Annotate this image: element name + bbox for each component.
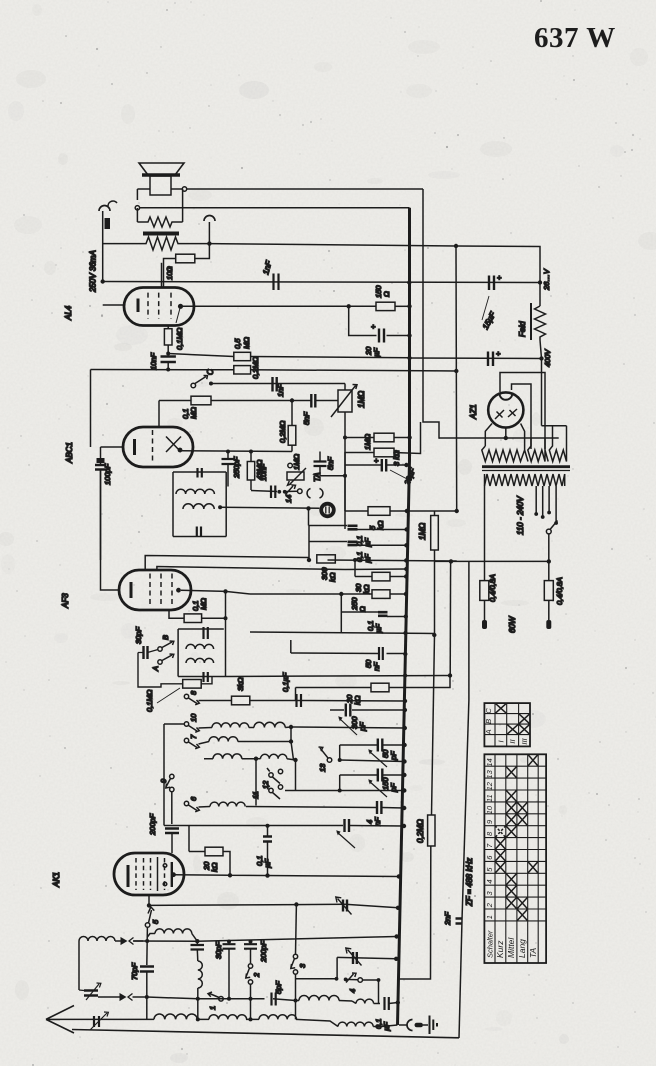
- capacitor 0,1uF: [263, 837, 272, 842]
- switch 14: [277, 490, 281, 494]
- svg-text:26…V: 26…V: [542, 268, 551, 291]
- svg-text:pF: pF: [389, 751, 398, 761]
- primary taps: [536, 486, 556, 522]
- row 710: capacitor 300pF trimmer: [330, 709, 405, 711]
- bracket coil D to switches 11/12: [256, 759, 296, 806]
- svg-text:1: 1: [485, 915, 494, 919]
- svg-text:I: I: [496, 740, 505, 742]
- resistor 0,1MOhm below AL4: [167, 326, 169, 353]
- antenna symbol: [46, 1006, 74, 1034]
- resistor 1MOhm (bus to mains row): [435, 511, 452, 561]
- primary winding 110-240V: [485, 474, 565, 486]
- row 594: resistor 250 Ohm: [250, 593, 406, 595]
- svg-text:B: B: [484, 719, 493, 724]
- corner to 2nF line: [459, 561, 469, 1038]
- node 260V: [538, 280, 542, 284]
- svg-text:0,5: 0,5: [233, 338, 242, 349]
- svg-text:10nF: 10nF: [259, 463, 268, 481]
- coil I: [154, 1014, 197, 1019]
- antenna trimmer: [84, 991, 98, 996]
- capacitor 2nF on 462 line: [456, 919, 463, 924]
- svg-text:+: +: [497, 273, 502, 282]
- tube AF3: [119, 570, 191, 610]
- svg-text:B: B: [161, 635, 170, 640]
- speaker terminal node left: [135, 206, 139, 210]
- speaker output transformer secondary loop: [137, 189, 182, 222]
- svg-text:4: 4: [485, 879, 494, 883]
- svg-text:1MΩ: 1MΩ: [363, 434, 372, 450]
- IF transformer T2: [178, 629, 225, 677]
- coil row 741: [199, 742, 210, 745]
- row 511: resistor 5kOhm: [345, 510, 457, 512]
- output transformer core bar: [143, 232, 179, 236]
- TA pickup connector: [319, 502, 335, 518]
- AK1 cathode lead bottom: [148, 895, 150, 905]
- svg-text:Ω: Ω: [382, 291, 391, 297]
- bottom rail: [60, 1019, 338, 1026]
- tube AL4: [124, 288, 194, 326]
- svg-text:4: 4: [348, 989, 357, 993]
- svg-text:13: 13: [485, 769, 494, 778]
- row 576: resistor 30kOhm: [355, 560, 406, 577]
- svg-text:MΩ: MΩ: [242, 337, 251, 349]
- svg-text:0,2MΩ: 0,2MΩ: [416, 819, 425, 843]
- capacitor 1nF on row 383.5: [273, 377, 277, 392]
- svg-text:110 - 240V: 110 - 240V: [516, 496, 525, 535]
- svg-text:250V 36mA: 250V 36mA: [89, 250, 98, 293]
- svg-text:Kurz: Kurz: [495, 940, 505, 958]
- switch 12: [269, 773, 273, 777]
- wire B+ top rail 1: [187, 188, 423, 190]
- potentiometer 1MOhm TA: [288, 463, 293, 468]
- svg-text:400V: 400V: [543, 348, 552, 367]
- row 826: trimmer to bus: [164, 825, 404, 828]
- row 632: wire crossing to 434: [250, 632, 434, 634]
- node 400V: [539, 356, 543, 360]
- svg-text:C: C: [206, 369, 215, 375]
- wire B+ rail 358: [410, 357, 542, 360]
- capacitor 30pF padder: [228, 942, 230, 944]
- switch 7: [184, 738, 188, 742]
- resistor 43MOhm: [250, 452, 252, 491]
- IF transformer T1 below ABC1: [173, 472, 226, 537]
- transformer core double bar: [482, 465, 570, 468]
- capacitor 15uF: [489, 276, 494, 291]
- antenna coil G: [79, 937, 115, 942]
- row 790: wire from switches 11/12: [285, 790, 404, 792]
- fuse 0,4/0,8A right: [548, 561, 550, 580]
- row 654: capacitor 50nF: [291, 652, 406, 655]
- svg-text:ZF = 488 kHz: ZF = 488 kHz: [465, 858, 474, 907]
- wire B+ top rail 2: [140, 207, 410, 209]
- resistor 1MOhm row 437: [345, 437, 410, 439]
- resistor 100 Ohm: [164, 244, 210, 288]
- resistor 0,1MOhm grid leak row 400.5: [159, 400, 338, 402]
- vertical wire 423 from top rail: [423, 189, 439, 439]
- switch 6: [184, 801, 188, 805]
- wire 250V feed to corner at 540: [209, 244, 540, 282]
- AF3 grid cap leads up: [145, 556, 309, 571]
- capacitor 20uF electrolytic: [349, 306, 410, 335]
- svg-text:637 W: 637 W: [534, 22, 616, 54]
- svg-text:nF: nF: [372, 662, 381, 671]
- row 728: wire coils to bus: [291, 727, 405, 728]
- T1 coil 1: [176, 489, 214, 494]
- coil F: [147, 934, 155, 938]
- svg-text:Ω: Ω: [358, 606, 367, 612]
- potentiometer 1MOhm volume: [344, 384, 346, 391]
- svg-text:A: A: [151, 666, 160, 672]
- svg-text:III: III: [520, 738, 529, 744]
- switch A: [158, 660, 162, 664]
- roentgen table ABC (Bereich): [484, 703, 530, 746]
- svg-text:200pF: 200pF: [148, 813, 157, 836]
- svg-text:11: 11: [485, 794, 494, 802]
- resistor 20kOhm: [189, 852, 230, 876]
- tube AK1: [114, 853, 184, 895]
- plug contacts row 997: [98, 996, 147, 998]
- junction right of field winding: [207, 241, 211, 245]
- switch 2: [248, 964, 252, 968]
- svg-text:ABC1: ABC1: [65, 442, 74, 464]
- voltage selector switch: [546, 529, 551, 534]
- svg-text:11: 11: [251, 791, 260, 799]
- svg-text:100Ω: 100Ω: [165, 266, 174, 280]
- svg-text:+: +: [496, 349, 501, 358]
- wire row 905: [149, 904, 345, 905]
- capacitor 5pF: [272, 993, 276, 1006]
- row 761: wire to bus: [340, 760, 405, 762]
- wire HV center tap: [439, 437, 559, 439]
- capacitor 10nF: [251, 491, 277, 492]
- svg-text:AZ1: AZ1: [469, 404, 478, 420]
- anode wire row 451: [182, 450, 292, 453]
- T1 coil 2: [183, 504, 214, 509]
- switch 5: [145, 923, 150, 928]
- trimmer inline on row 905 to bus: [345, 904, 398, 908]
- svg-text:µF: µF: [263, 859, 272, 868]
- trimmer 2 row 957 to bus: [337, 957, 396, 958]
- svg-text:5nF: 5nF: [302, 412, 311, 425]
- capacitor 0,1uF to bus: [385, 997, 389, 1010]
- main bus thick vertical (B-/chassis): [398, 208, 410, 1025]
- switch 13: [339, 745, 341, 760]
- switch C: [191, 383, 196, 388]
- capacitor 70pF: [140, 967, 154, 972]
- wire 400V down to filament winding: [541, 359, 543, 426]
- svg-text:200pF: 200pF: [259, 940, 268, 963]
- svg-text:AF3: AF3: [61, 593, 70, 609]
- resistor 0,1MOhm AVC: [183, 680, 202, 689]
- svg-text:kΩ: kΩ: [210, 862, 219, 872]
- speaker LS cone: [139, 163, 184, 175]
- svg-text:0,1MΩ: 0,1MΩ: [175, 327, 184, 350]
- svg-text:MΩ: MΩ: [199, 598, 208, 610]
- capacitor 250pF: [227, 452, 229, 487]
- svg-text:Lang: Lang: [517, 939, 527, 958]
- AZ1 filament leads up and over to winding: [500, 373, 545, 450]
- svg-text:3 kΩ: 3 kΩ: [392, 450, 401, 466]
- svg-text:kΩ: kΩ: [362, 584, 371, 594]
- svg-text:2: 2: [485, 902, 494, 908]
- junction 250V rail dot: [101, 279, 105, 283]
- speaker terminal node right: [182, 187, 186, 191]
- svg-text:Mittel: Mittel: [506, 937, 516, 958]
- AF3 anode wire to 250 Ohm row: [181, 590, 250, 594]
- tube ABC1: [123, 427, 193, 467]
- capacitor 20uF + at 400V rail: [488, 352, 493, 367]
- svg-text:70pF: 70pF: [130, 962, 139, 980]
- svg-text:30pF: 30pF: [214, 941, 223, 959]
- wire jack to field winding: [102, 211, 104, 282]
- ground trimmer arrow: [90, 1012, 108, 1030]
- svg-text:C: C: [484, 708, 493, 714]
- row 701: wire from 0,1uF to bus: [305, 700, 405, 703]
- resistor 3kOhm row 452: [374, 448, 394, 457]
- svg-text:1MΩ: 1MΩ: [418, 523, 427, 540]
- vertical 434 down to ground: [399, 561, 435, 979]
- coil M: [352, 1001, 356, 1004]
- capacitor 0,1uF: [297, 694, 302, 707]
- switch 3: [295, 905, 298, 955]
- svg-text:AK1: AK1: [52, 872, 61, 888]
- switch 1: [219, 997, 224, 1002]
- coil row 759 C: [213, 754, 242, 759]
- svg-text:12: 12: [485, 781, 494, 790]
- capacitor 200pF padder: [250, 942, 252, 944]
- capacitor 100pF: [95, 465, 106, 470]
- AZ1 cathode funnel to HV winding: [485, 424, 524, 447]
- chassis jack: [399, 1024, 407, 1026]
- svg-text:0,2MΩ: 0,2MΩ: [251, 356, 260, 379]
- svg-text:0,1µF: 0,1µF: [281, 672, 290, 692]
- svg-text:TA: TA: [528, 947, 538, 958]
- capacitor 30pF: [144, 646, 148, 659]
- switch 8: [184, 694, 188, 698]
- resistor 0,1MOhm below AF3: [169, 609, 226, 618]
- wire AL4 anode to 150 Ohm: [183, 305, 376, 307]
- coil K: [259, 1015, 297, 1020]
- output transformer primary zigzag: [103, 237, 209, 250]
- resistor 3kOhm: [232, 696, 250, 705]
- power transformer HV+filament windings: [482, 446, 528, 462]
- vertical 90.5 ABC1 grid feed: [90, 370, 92, 448]
- row 614: capacitor 0,1uF: [341, 594, 406, 632]
- svg-text:µF: µF: [374, 624, 383, 633]
- row 526: capacitor 0,1uF: [309, 526, 407, 530]
- coil N: [338, 1022, 373, 1026]
- capacitor 10nF: [161, 357, 176, 363]
- vertical 309: [308, 526, 310, 561]
- primary left lead down to fuse: [484, 486, 486, 581]
- switch 9: [170, 774, 174, 778]
- svg-text:A: A: [484, 729, 493, 735]
- headphone jack left pair: [99, 206, 110, 212]
- coil row 727 B: [249, 727, 254, 729]
- svg-text:60W: 60W: [508, 615, 517, 633]
- svg-text:II: II: [508, 739, 517, 743]
- svg-text:14: 14: [485, 758, 494, 766]
- row 675: long wire to 450: [226, 676, 451, 677]
- speaker voice-coil box: [150, 176, 171, 195]
- row 808: capacitor 4nF: [246, 807, 404, 809]
- coil row 806 E: [199, 806, 211, 809]
- svg-text:pF: pF: [389, 783, 398, 793]
- svg-text:kΩ: kΩ: [376, 520, 385, 530]
- svg-text:5nF: 5nF: [326, 457, 335, 470]
- capacitor 5nF right: [314, 462, 327, 467]
- svg-text:5pF: 5pF: [274, 981, 283, 994]
- svg-text:10: 10: [189, 713, 198, 722]
- svg-text:+: +: [371, 322, 376, 331]
- row 775: capacitor 150pF trimmer: [340, 774, 405, 776]
- svg-text:250pF: 250pF: [232, 456, 241, 479]
- svg-text:10: 10: [485, 805, 494, 814]
- svg-text:Feld: Feld: [518, 321, 527, 337]
- resistor 0,2MOhm row: [91, 370, 457, 372]
- plug contacts row 941: [115, 940, 143, 942]
- svg-text:100pF: 100pF: [103, 463, 112, 485]
- svg-text:nF: nF: [373, 817, 382, 826]
- svg-text:MΩ: MΩ: [189, 407, 198, 419]
- fuse 0,4/0,8A left: [480, 581, 489, 601]
- row 745: capacitor 50pF trimmer: [340, 744, 405, 746]
- vertical 164 from row724: [163, 724, 165, 826]
- svg-text:Schalter: Schalter: [486, 930, 495, 958]
- wire row 700: [199, 700, 306, 702]
- wire 250V rail: [103, 282, 540, 283]
- capacitor 20uF cathode electrolytic: [345, 464, 406, 466]
- headphone jack right: [204, 216, 215, 221]
- svg-text:0,2MΩ: 0,2MΩ: [278, 420, 287, 443]
- switch 11: [269, 788, 273, 792]
- svg-text:µF: µF: [363, 554, 372, 563]
- svg-text:2nF: 2nF: [443, 912, 452, 926]
- svg-text:µF: µF: [372, 348, 381, 357]
- ground symbol: [429, 1016, 431, 1035]
- svg-text:14: 14: [284, 495, 293, 503]
- bottom right rail: [72, 1030, 459, 1038]
- T1 bottom capacitor: [197, 527, 201, 537]
- capacitor 1nF (anode to rail): [274, 274, 279, 291]
- resistor (hum bucking) zigzag in loop: [137, 217, 182, 227]
- resistor Feld (field coil): [540, 283, 542, 359]
- svg-text:1MΩ: 1MΩ: [357, 391, 366, 408]
- svg-text:13: 13: [318, 763, 327, 772]
- svg-text:0,4/0,8A: 0,4/0,8A: [555, 577, 564, 605]
- TA jack hooks: [307, 489, 310, 499]
- T1 box wires: [173, 472, 226, 537]
- T1 top capacitor: [198, 468, 202, 478]
- switch B: [158, 647, 162, 651]
- wire row 933 to caps: [133, 937, 397, 942]
- svg-text:1: 1: [208, 1006, 217, 1010]
- resistor 150 Ohm: [376, 302, 395, 310]
- switch 10: [184, 722, 188, 726]
- resistor 0,2MOhm vertical: [291, 401, 293, 452]
- AK1 anode wire row 875: [175, 875, 399, 877]
- resistor 0,5MOhm row: [168, 354, 409, 358]
- coil row 759 D: [256, 758, 261, 760]
- svg-text:30pF: 30pF: [134, 626, 143, 644]
- svg-text:0,1MΩ: 0,1MΩ: [145, 689, 154, 712]
- resistor 0,2MOhm vertical: [428, 815, 435, 846]
- coil L: [296, 1000, 300, 1002]
- coil J: [209, 1015, 247, 1020]
- svg-text:AL4: AL4: [64, 305, 73, 321]
- oscillator coil H vertical: [196, 941, 198, 944]
- row 560: resistor 300kOhm: [328, 560, 457, 561]
- svg-text:10nF: 10nF: [149, 352, 158, 370]
- row 687: resistor 20kOhm: [296, 676, 451, 688]
- svg-text:0,4/0,8A: 0,4/0,8A: [488, 574, 497, 602]
- AZ1 anodes: [495, 409, 517, 419]
- capacitor 5nF inline: [311, 394, 315, 408]
- wire grid row 383.5: [211, 383, 345, 385]
- svg-text:2: 2: [252, 972, 261, 978]
- svg-text:3kΩ: 3kΩ: [236, 677, 245, 691]
- coil row 727 A: [199, 727, 213, 730]
- tube AZ1: [488, 392, 523, 427]
- wire row 999: [198, 999, 296, 1001]
- svg-text:kΩ: kΩ: [328, 572, 337, 582]
- IF transformer T2 right post: [225, 591, 227, 676]
- svg-text:1nF: 1nF: [276, 384, 285, 397]
- junction bus/rail 282: [407, 280, 411, 284]
- ABC1 cathode wire left: [101, 447, 124, 465]
- row 543: capacitor 0,1uF: [309, 542, 406, 546]
- vertical 100.5 down to AF3 grid: [101, 470, 121, 591]
- vertical 456 (250V line drop): [455, 246, 458, 511]
- wire mains row 561: [451, 560, 549, 562]
- svg-text:1MΩ: 1MΩ: [292, 454, 301, 470]
- switch 4: [296, 957, 338, 978]
